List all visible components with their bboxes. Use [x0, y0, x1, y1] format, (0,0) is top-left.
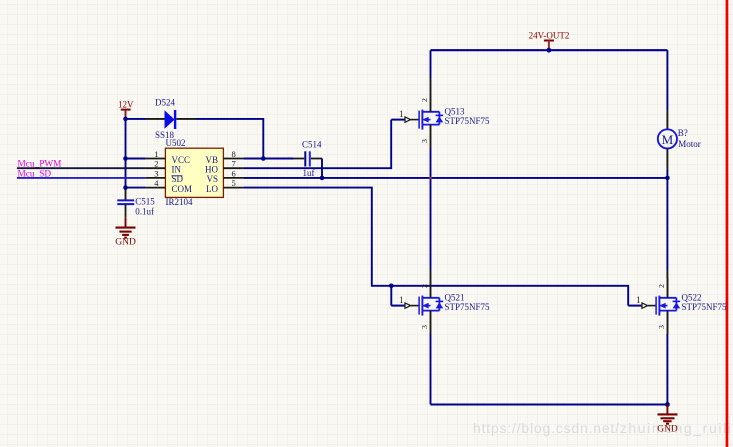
svg-text:1: 1 — [154, 149, 158, 159]
svg-text:M: M — [662, 132, 674, 147]
pin 6 VS — [223, 177, 243, 179]
pin 7 HO — [223, 167, 243, 169]
sheet border (right edge) — [726, 0, 729, 447]
pin 8 VB — [223, 158, 243, 160]
junction 24V rail — [547, 48, 552, 53]
svg-text:STP75NF75: STP75NF75 — [682, 302, 728, 312]
diode D524 — [165, 110, 175, 129]
wire LO to low-side gates — [243, 188, 628, 306]
wire phase to Q521 drain — [430, 178, 432, 270]
wire bus to pin 1 — [126, 158, 146, 160]
svg-text:https://blog.csdn.net/zhuimeng: https://blog.csdn.net/zhuimeng_ruili — [473, 420, 732, 436]
svg-text:6: 6 — [232, 168, 236, 178]
junction LO / Q521 gate — [389, 284, 394, 289]
svg-text:12V: 12V — [118, 99, 134, 109]
wire D524 cathode to VB node — [176, 118, 196, 120]
svg-text:Q521: Q521 — [445, 293, 465, 303]
IC U502 body — [165, 148, 223, 197]
svg-text:Q522: Q522 — [682, 293, 702, 303]
wire phase to Q522 drain — [666, 178, 668, 270]
svg-text:GND: GND — [115, 238, 136, 248]
wire 24V rail to motor — [666, 50, 668, 110]
pin 4 COM — [146, 187, 166, 189]
svg-text:0.1uf: 0.1uf — [135, 206, 154, 216]
wire bus to pin 4 — [126, 187, 146, 189]
junction VCC pin 1 — [123, 156, 128, 161]
svg-text:24V-OUT2: 24V-OUT2 — [529, 31, 570, 41]
wire C514 to VS — [311, 158, 322, 160]
svg-text:IR2104: IR2104 — [166, 197, 194, 207]
svg-text:C514: C514 — [302, 140, 322, 150]
svg-text:VCC: VCC — [172, 155, 191, 165]
wire Q522 source to bottom rail — [666, 334, 668, 405]
svg-text:IN: IN — [172, 165, 182, 175]
junction VB node — [261, 156, 266, 161]
junction C514 / VS — [320, 176, 325, 181]
wire Q521 gate riser — [390, 286, 392, 306]
svg-text:VB: VB — [205, 155, 218, 165]
svg-text:Motor: Motor — [678, 139, 701, 149]
svg-text:8: 8 — [232, 149, 236, 159]
svg-text:STP75NF75: STP75NF75 — [445, 116, 491, 126]
wire 24V rail — [431, 49, 668, 51]
pin 5 LO — [223, 187, 243, 189]
ground GND (output) — [666, 405, 668, 415]
wire Q513 source to phase — [430, 148, 432, 178]
wire Mcu_PWM to IN — [17, 167, 146, 169]
transistor Q521 — [391, 278, 443, 334]
wire VS phase node — [243, 177, 667, 179]
svg-text:2: 2 — [154, 159, 158, 169]
svg-text:U502: U502 — [166, 138, 186, 148]
junction 12V node — [123, 117, 128, 122]
crossing marker (phase over Q513-Q521 vertical) — [429, 177, 431, 179]
wire bottom rail — [431, 404, 668, 406]
capacitor C515 — [125, 199, 127, 202]
wire Mcu_SD to SD — [17, 177, 146, 179]
wire VCC bus (vertical from 12V) — [125, 119, 127, 189]
pin 2 IN — [146, 167, 166, 169]
svg-text:C515: C515 — [135, 197, 155, 207]
svg-text:5: 5 — [232, 178, 236, 188]
pin 3 SD (overline) — [146, 177, 166, 179]
svg-text:COM: COM — [172, 184, 193, 194]
wire Q521 source to bottom rail — [430, 334, 432, 405]
capacitor C514 — [304, 151, 306, 166]
wire 24V rail to Q513 drain — [430, 50, 432, 78]
transistor Q513 — [391, 92, 443, 148]
svg-text:LO: LO — [206, 184, 218, 194]
wire 12V to D524 anode — [126, 118, 147, 120]
wire HO to Q513 gate — [243, 120, 391, 169]
ground GND (left) — [125, 217, 127, 227]
motor B? — [658, 129, 677, 148]
transistor Q522 — [628, 278, 680, 334]
junction bottom rail / GND — [665, 402, 670, 407]
svg-text:D524: D524 — [155, 97, 175, 107]
wire VB to C514 — [243, 158, 293, 160]
svg-text:7: 7 — [232, 159, 236, 169]
svg-text:HO: HO — [205, 165, 218, 175]
junction COM pin 4 — [123, 185, 128, 190]
svg-text:1uf: 1uf — [303, 168, 315, 178]
svg-text:STP75NF75: STP75NF75 — [445, 302, 491, 312]
pin 1 VCC — [146, 158, 166, 160]
svg-text:GND: GND — [657, 425, 678, 435]
wire motor to phase — [666, 149, 668, 171]
junction motor / phase — [665, 176, 670, 181]
svg-text:3: 3 — [154, 168, 158, 178]
svg-text:VS: VS — [206, 174, 218, 184]
svg-text:B?: B? — [678, 128, 688, 138]
svg-text:Q513: Q513 — [445, 107, 465, 117]
